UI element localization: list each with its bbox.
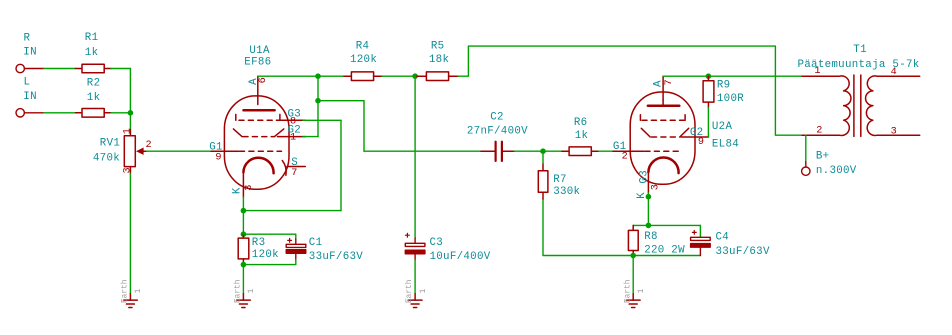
- svg-text:Earth: Earth: [406, 280, 414, 303]
- tube U1A EF86: [211, 76, 305, 197]
- wire R5 to top B+ line: [458, 46, 802, 135]
- svg-text:Earth: Earth: [122, 280, 130, 303]
- svg-text:C3: C3: [430, 237, 444, 249]
- svg-text:A: A: [652, 80, 664, 87]
- svg-text:C2: C2: [490, 112, 504, 124]
- svg-text:18k: 18k: [429, 54, 449, 66]
- anode pin: [662, 76, 664, 100]
- svg-text:3: 3: [891, 127, 897, 138]
- grid G1 electrode: [224, 150, 238, 152]
- wire U2A anode to junction: [663, 75, 708, 77]
- wire junction down to RV1: [129, 113, 131, 130]
- svg-text:C4: C4: [716, 232, 730, 244]
- svg-text:33uF/63V: 33uF/63V: [309, 251, 363, 263]
- svg-text:RV1: RV1: [100, 137, 120, 149]
- svg-text:6: 6: [258, 77, 269, 83]
- wire junction to G2 pin: [317, 101, 319, 137]
- cathode arc: [648, 157, 678, 173]
- svg-text:IN: IN: [23, 91, 37, 103]
- wire R4 to node B: [382, 75, 415, 77]
- capacitor C2: [481, 142, 514, 161]
- wire R7 top: [542, 151, 544, 163]
- capacitor C1: [286, 239, 306, 260]
- anode pin: [257, 76, 259, 104]
- svg-text:1: 1: [420, 288, 428, 293]
- wire C2 row left: [364, 150, 481, 152]
- wire C2 to R6: [514, 150, 562, 152]
- junction R8 row: [646, 223, 652, 229]
- svg-text:10uF/400V: 10uF/400V: [430, 251, 491, 263]
- pin G2/9: [695, 136, 709, 138]
- connector L-IN: [16, 109, 44, 117]
- svg-text:4: 4: [891, 67, 897, 78]
- svg-text:2: 2: [622, 152, 628, 163]
- resistor R1: [76, 64, 112, 73]
- resistor R2: [76, 109, 112, 118]
- svg-text:R7: R7: [553, 174, 567, 186]
- anode plate: [244, 109, 275, 112]
- tube U2A EL84: [613, 76, 708, 193]
- svg-text:Earth: Earth: [235, 280, 243, 303]
- wire R3 bottom to earth: [242, 265, 244, 294]
- svg-text:R1: R1: [85, 32, 99, 44]
- grid G3 electrode: [639, 115, 641, 121]
- wire L-IN to R2: [44, 112, 76, 114]
- svg-text:2: 2: [816, 125, 822, 136]
- svg-text:1: 1: [248, 288, 256, 293]
- junction cathode node: [241, 208, 247, 214]
- junction anode node: [315, 73, 321, 79]
- svg-text:100R: 100R: [717, 93, 744, 105]
- wire U2A cathode down: [647, 193, 649, 197]
- ground earth 4: [626, 294, 640, 308]
- junction node A2: [315, 98, 321, 104]
- capacitor C3: [405, 233, 425, 260]
- connector R-IN: [16, 64, 44, 72]
- wire RV1 bottom to earth: [129, 174, 131, 294]
- svg-text:3: 3: [244, 185, 255, 191]
- svg-text:330k: 330k: [553, 186, 580, 198]
- svg-text:T1: T1: [853, 44, 867, 56]
- connector B+ terminal: [802, 162, 810, 176]
- svg-text:3: 3: [651, 184, 662, 190]
- grid G1 electrode: [630, 150, 644, 152]
- wire anode row to T1 pin 1: [708, 75, 802, 77]
- svg-text:9: 9: [215, 152, 221, 163]
- junction R8 bottom: [630, 253, 636, 259]
- anode plate: [648, 105, 679, 108]
- wire anode junction to R4: [318, 75, 343, 77]
- cathode arc: [243, 158, 273, 174]
- junction input mix node: [128, 110, 134, 116]
- resistor R5: [417, 72, 458, 81]
- svg-text:Earth: Earth: [624, 280, 632, 303]
- wire corner down to junction: [129, 69, 131, 113]
- wire cathode to R8 row: [647, 197, 649, 226]
- svg-text:120k: 120k: [350, 54, 377, 66]
- wire cathode down: [242, 197, 244, 211]
- wire U1A anode to junction: [258, 75, 318, 77]
- junction node B: [412, 73, 418, 79]
- resistor R8: [628, 225, 638, 255]
- svg-text:33uF/63V: 33uF/63V: [716, 246, 770, 258]
- wire G3 row to cathode junction: [243, 210, 341, 212]
- svg-text:G3: G3: [639, 170, 651, 184]
- svg-text:9: 9: [698, 137, 704, 148]
- wire cathode to R3 top: [242, 211, 244, 235]
- ground earth 1: [124, 294, 138, 308]
- core: [853, 75, 855, 136]
- svg-text:R: R: [24, 33, 31, 45]
- wire R3 top to C1: [243, 234, 295, 239]
- pin G1/9: [211, 150, 224, 152]
- wire C3 to earth: [414, 260, 416, 294]
- wire R7 bottom to ground row: [543, 200, 633, 256]
- grid G3 electrode: [235, 114, 237, 120]
- pin S/7: [287, 166, 305, 168]
- capacitor C4: [691, 225, 711, 255]
- wire R1 to corner: [111, 68, 130, 70]
- svg-text:EF86: EF86: [244, 57, 271, 69]
- wire C1 bottom to R3 bottom: [243, 260, 295, 265]
- secondary winding pins 4-3: [866, 76, 920, 136]
- grid G2 electrode: [233, 129, 242, 137]
- wire G3 down to cathode row: [340, 120, 342, 210]
- resistor R4: [343, 72, 382, 81]
- svg-text:R3: R3: [252, 237, 266, 249]
- svg-text:1: 1: [135, 288, 143, 293]
- cathode pin: [647, 172, 649, 193]
- wire R6 to U2A G1: [599, 150, 613, 152]
- svg-text:U2A: U2A: [712, 121, 733, 133]
- svg-text:K: K: [232, 187, 244, 194]
- svg-text:R5: R5: [431, 41, 445, 53]
- wire T1 pin2 to B+: [805, 135, 807, 162]
- svg-text:R9: R9: [717, 80, 731, 92]
- junction R3 top: [241, 231, 247, 237]
- pin G2/1: [289, 136, 306, 138]
- junction R3 bottom: [241, 262, 247, 268]
- junction R9 top: [706, 73, 712, 79]
- shield S electrode: [282, 161, 286, 176]
- svg-text:IN: IN: [23, 47, 37, 59]
- ground earth 3: [408, 294, 422, 308]
- wire G3 pin right: [303, 119, 341, 121]
- resistor R3: [238, 234, 249, 264]
- wire R2 to junction: [111, 112, 130, 114]
- resistor R6: [562, 147, 599, 156]
- svg-text:7: 7: [664, 79, 675, 85]
- svg-text:U1A: U1A: [249, 45, 270, 57]
- svg-text:2: 2: [146, 140, 152, 151]
- svg-text:1: 1: [122, 128, 133, 134]
- svg-text:1k: 1k: [85, 47, 99, 59]
- svg-text:C1: C1: [309, 237, 323, 249]
- primary winding pins 1-2: [802, 76, 851, 136]
- svg-text:B+: B+: [816, 150, 830, 162]
- potentiometer RV1: [124, 130, 146, 174]
- wire junction A2 right: [318, 100, 364, 102]
- wire down to C2 row: [363, 101, 365, 152]
- envelope: [224, 96, 289, 189]
- pin G1/2: [613, 150, 630, 152]
- pin G3/8: [288, 119, 305, 121]
- envelope: [630, 92, 695, 184]
- junction R7 node: [540, 148, 546, 154]
- wire R8 top row: [633, 224, 700, 226]
- svg-text:27nF/400V: 27nF/400V: [467, 126, 528, 138]
- wire anode junction down: [317, 76, 319, 101]
- svg-text:120k: 120k: [252, 249, 279, 261]
- svg-text:L: L: [24, 77, 31, 89]
- wire node B down to C3: [414, 76, 416, 238]
- resistor R7: [538, 164, 548, 200]
- svg-text:1k: 1k: [87, 92, 101, 104]
- svg-text:470k: 470k: [93, 153, 120, 165]
- svg-text:3: 3: [122, 167, 133, 173]
- svg-text:1k: 1k: [575, 130, 589, 142]
- svg-text:1: 1: [290, 133, 296, 144]
- svg-text:7: 7: [291, 168, 297, 179]
- resistor R9: [703, 76, 714, 107]
- grid G2 electrode: [641, 128, 650, 137]
- svg-text:1: 1: [638, 288, 646, 293]
- svg-text:R6: R6: [574, 117, 588, 129]
- wire R-IN to R1: [44, 68, 76, 70]
- svg-text:R4: R4: [356, 41, 370, 53]
- svg-text:1: 1: [814, 66, 820, 77]
- svg-text:EL84: EL84: [712, 138, 739, 150]
- wire R8 bottom to earth: [632, 256, 634, 294]
- wire R9 to G2 pin: [707, 108, 709, 138]
- svg-text:R2: R2: [87, 78, 101, 90]
- svg-text:n.300V: n.300V: [816, 165, 857, 177]
- ground earth 2: [237, 294, 251, 308]
- svg-text:R8: R8: [644, 231, 658, 243]
- wire ground row to C4: [633, 255, 700, 257]
- wire RV1 wiper to U1A G1: [147, 150, 212, 152]
- cathode pin: [242, 172, 244, 197]
- junction cathode: [646, 194, 652, 200]
